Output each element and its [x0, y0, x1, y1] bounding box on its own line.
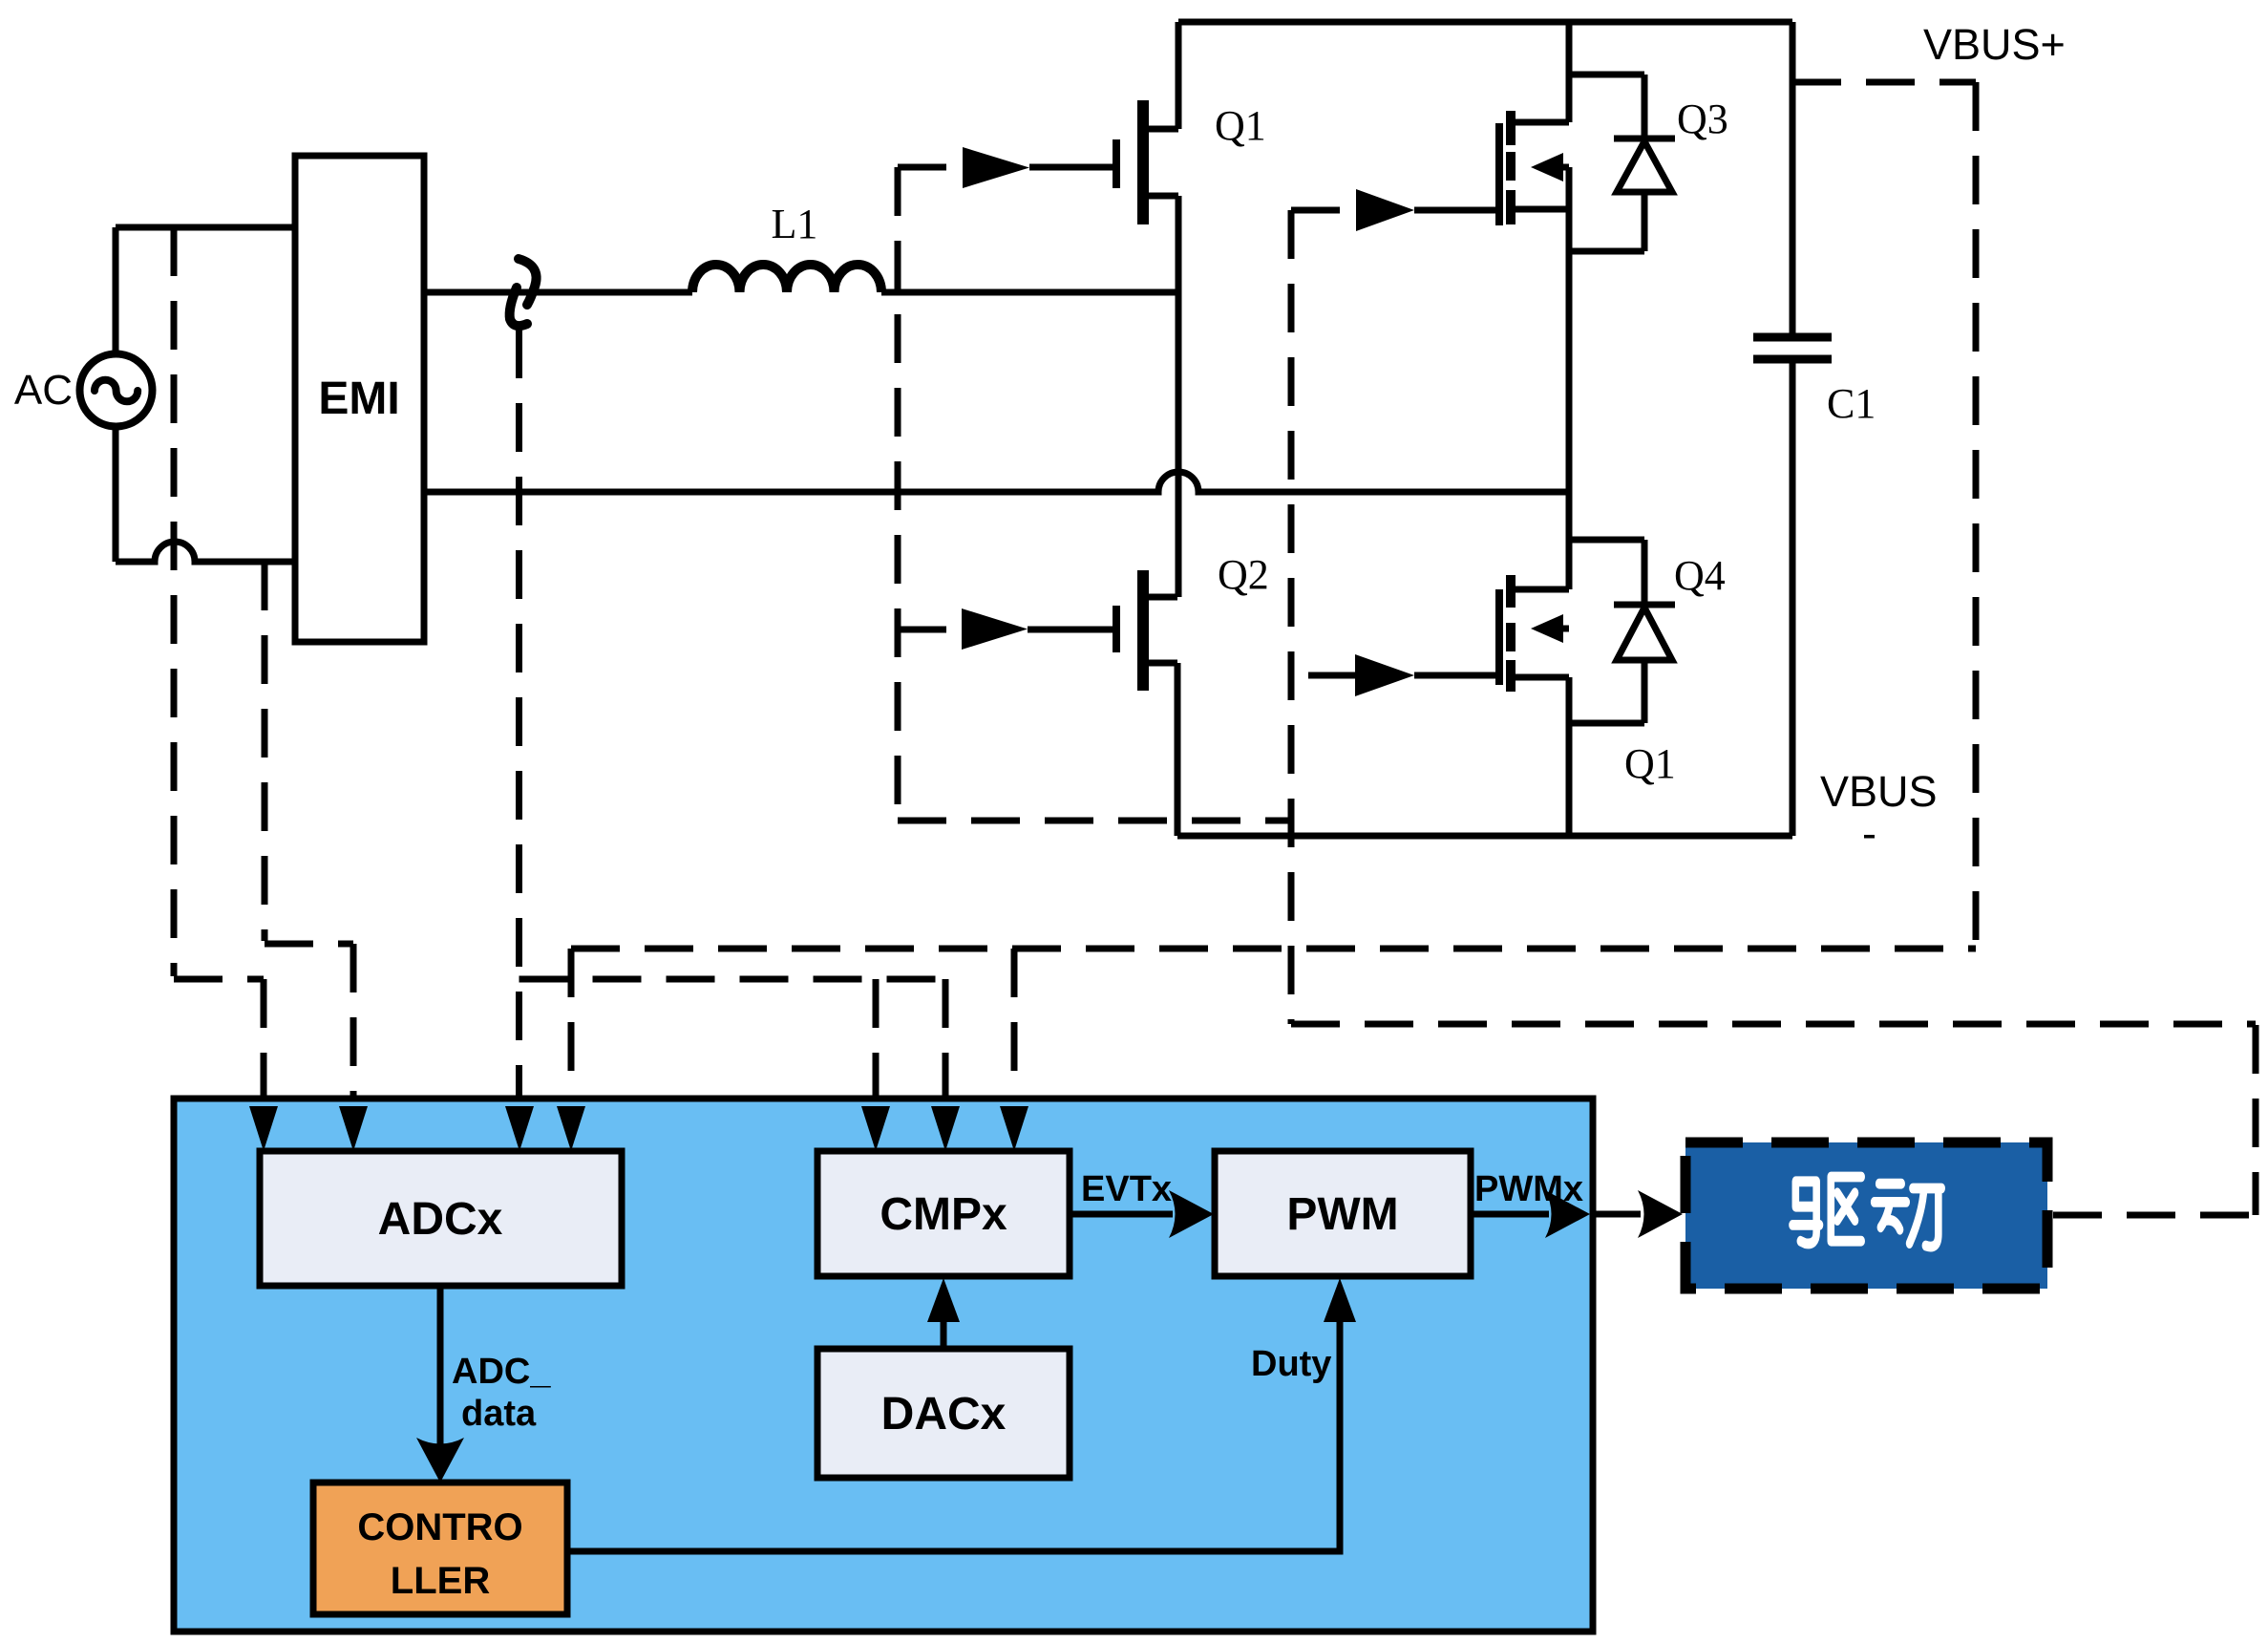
block DACx — [817, 1349, 1070, 1478]
svg-text:EVTx: EVTx — [1081, 1169, 1172, 1209]
wire Q4 source to rail — [1566, 677, 1573, 836]
dashed AC sense line A — [174, 227, 264, 1108]
svg-text:Q2: Q2 — [1218, 551, 1269, 598]
dashed VBUS+ sense — [1792, 82, 1976, 949]
dashed gate bus right — [1291, 210, 2256, 1215]
wire slow-leg midpoint — [1566, 167, 1573, 589]
svg-text:LLER: LLER — [391, 1560, 491, 1602]
wire EMI to L1 — [424, 289, 692, 296]
svg-text:VBUS: VBUS — [1820, 767, 1938, 816]
svg-text:C1: C1 — [1827, 380, 1876, 427]
arrow ADC_data — [416, 1286, 464, 1483]
dashed rail R2 — [519, 979, 946, 1110]
svg-text:PWM: PWM — [1286, 1189, 1398, 1240]
AC source — [80, 354, 153, 427]
wire AC bottom (hump over sense line) — [116, 426, 295, 562]
svg-text:Q1: Q1 — [1624, 740, 1676, 787]
transistor Q1 — [963, 22, 1178, 224]
wire top rail — [1178, 19, 1792, 26]
dashed rail R1 (VBUS sense to ADC/CMP) — [571, 946, 1976, 952]
svg-text:CONTRO: CONTRO — [357, 1506, 522, 1548]
svg-text:VBUS+: VBUS+ — [1923, 20, 2066, 69]
wire fast-leg midpoint — [1176, 196, 1182, 597]
char DONG (left part) — [1875, 1184, 1907, 1229]
svg-text:data: data — [461, 1394, 537, 1434]
block CONTROLLER — [313, 1483, 567, 1614]
wire L1 to bridge — [881, 289, 1178, 296]
svg-text:L1: L1 — [772, 201, 818, 247]
capacitor C1 — [1753, 22, 1832, 836]
wire neutral (hump over fast leg) — [424, 472, 1569, 492]
current sensor squiggle — [510, 259, 537, 326]
inductor L1 — [692, 265, 881, 292]
arrow PWMx out of MCU — [1471, 1190, 1590, 1238]
svg-text:Duty: Duty — [1251, 1344, 1331, 1384]
dashed IL sense line — [516, 330, 522, 1108]
svg-text:ADCx: ADCx — [378, 1194, 503, 1245]
char DONG (right part) — [1910, 1188, 1942, 1247]
MCU block — [174, 1099, 1593, 1632]
arrow into driver — [1593, 1190, 1683, 1238]
svg-text:EMI: EMI — [318, 373, 399, 424]
arrow Duty into PWM — [1324, 1278, 1356, 1322]
arrows into CMPx — [861, 1106, 1028, 1151]
svg-text:Q4: Q4 — [1674, 552, 1726, 599]
body diode Q3 — [1569, 75, 1675, 251]
dashed AC sense line B — [265, 562, 353, 1108]
dashed gate bus left — [898, 167, 1291, 821]
svg-text:DACx: DACx — [881, 1389, 1007, 1440]
transistor Q3 — [1356, 22, 1644, 231]
EMI filter block — [295, 156, 424, 642]
transistor Q2 — [962, 570, 1177, 691]
arrows into ADCx — [249, 1106, 585, 1151]
driver label strokes — [1792, 1177, 1941, 1247]
block PWM — [1215, 1151, 1471, 1276]
svg-text:Q1: Q1 — [1215, 102, 1266, 149]
arrow DACx to CMPx — [927, 1278, 960, 1349]
svg-text:PWMx: PWMx — [1474, 1169, 1583, 1209]
char QU (horse radical) — [1792, 1182, 1820, 1244]
block CMPx — [817, 1151, 1070, 1276]
block ADCx — [260, 1151, 622, 1286]
transistor Q4 — [1308, 540, 1644, 696]
svg-text:ADC_: ADC_ — [452, 1352, 551, 1392]
svg-text:CMPx: CMPx — [880, 1189, 1007, 1240]
wire AC top — [116, 227, 295, 354]
svg-text:Q3: Q3 — [1677, 96, 1728, 142]
svg-text:-: - — [1862, 809, 1876, 858]
arrow EVTx — [1070, 1190, 1214, 1238]
char QU (right part) — [1831, 1177, 1861, 1241]
wire Q2 source to rail — [1175, 663, 1181, 836]
driver block (drive) — [1685, 1142, 2047, 1289]
svg-text:AC: AC — [14, 367, 73, 414]
wire Duty from CONTROLLER — [567, 1322, 1340, 1551]
dashed R1 branches — [571, 949, 1014, 1110]
body diode Q4 — [1569, 540, 1675, 723]
wire bottom rail — [1177, 833, 1792, 840]
